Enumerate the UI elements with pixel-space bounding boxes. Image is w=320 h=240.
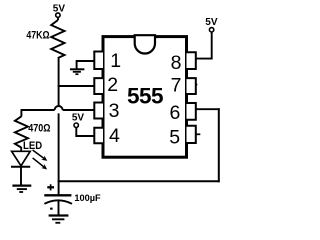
pin 5 stub wire	[196, 133, 201, 135]
svg-text:7: 7	[171, 74, 182, 96]
wire pin 2 (trigger) to rail	[58, 85, 95, 87]
pin 3 box	[94, 103, 103, 119]
svg-text:5V: 5V	[205, 17, 218, 28]
pin 6 box	[187, 103, 196, 120]
wire bottom net (pin 6 to capacitor node)	[58, 180, 220, 182]
wire pin 1 to ground	[77, 61, 95, 69]
capacitor C1 minus mark	[50, 208, 53, 210]
ground (pin 1)	[70, 69, 84, 74]
pin 1 box	[94, 52, 103, 70]
resistor R1 47KΩ	[51, 20, 64, 58]
capacitor C1 curved plate	[44, 200, 72, 204]
LED D1	[11, 151, 30, 166]
wire right rail from pin 6	[218, 108, 220, 182]
wire pin 3 (output) to LED branch, with hop over rail	[21, 109, 54, 111]
wire R2 to LED	[20, 147, 22, 152]
wire LED cathode to ground	[20, 167, 22, 185]
pin 7 stub wire	[196, 84, 198, 86]
wire pin3 corner down to resistor R2	[20, 109, 22, 116]
IC U1 555 body	[103, 37, 187, 158]
resistor R2 470Ω	[15, 116, 28, 147]
svg-text:4: 4	[109, 125, 120, 147]
node 5V supply terminal (top left)	[53, 4, 66, 18]
svg-text:3: 3	[109, 100, 120, 122]
wire 5V to pin 4	[76, 127, 94, 136]
LED arrow 2	[33, 158, 48, 170]
svg-text:5V: 5V	[72, 113, 85, 124]
pin 2 box	[94, 78, 103, 94]
ground (LED)	[12, 186, 31, 192]
svg-text:1: 1	[110, 50, 121, 72]
svg-text:47KΩ: 47KΩ	[26, 30, 49, 42]
wire hop (no connection)	[55, 106, 63, 110]
svg-text:555: 555	[127, 83, 163, 108]
node 5V supply terminal (pin 4)	[72, 113, 85, 128]
wire pin 6 horizontal	[196, 108, 220, 110]
pin 5 box	[187, 126, 196, 143]
capacitor C1 top plate	[44, 194, 71, 196]
wire 5V to pin 8	[196, 32, 212, 59]
wire 5V terminal to resistor R1	[57, 17, 59, 20]
pin 4 box	[94, 128, 103, 144]
svg-text:470Ω: 470Ω	[28, 123, 50, 135]
svg-text:100µF: 100µF	[74, 193, 101, 203]
wire main vertical rail (R1 bottom to capacitor, passes hop)	[58, 58, 60, 107]
pin 7 box	[187, 78, 196, 94]
capacitor C1 100µF plus sign	[47, 184, 54, 190]
ground (capacitor)	[49, 216, 69, 223]
wire capacitor to ground	[58, 200, 60, 215]
svg-text:8: 8	[171, 52, 182, 74]
svg-text:2: 2	[107, 74, 118, 96]
IC notch	[135, 35, 155, 53]
LED arrow 1	[33, 150, 48, 161]
node 5V supply terminal (pin 8)	[205, 17, 218, 32]
svg-text:5: 5	[169, 127, 180, 149]
pin 8 box	[187, 52, 196, 69]
svg-text:6: 6	[169, 102, 180, 124]
